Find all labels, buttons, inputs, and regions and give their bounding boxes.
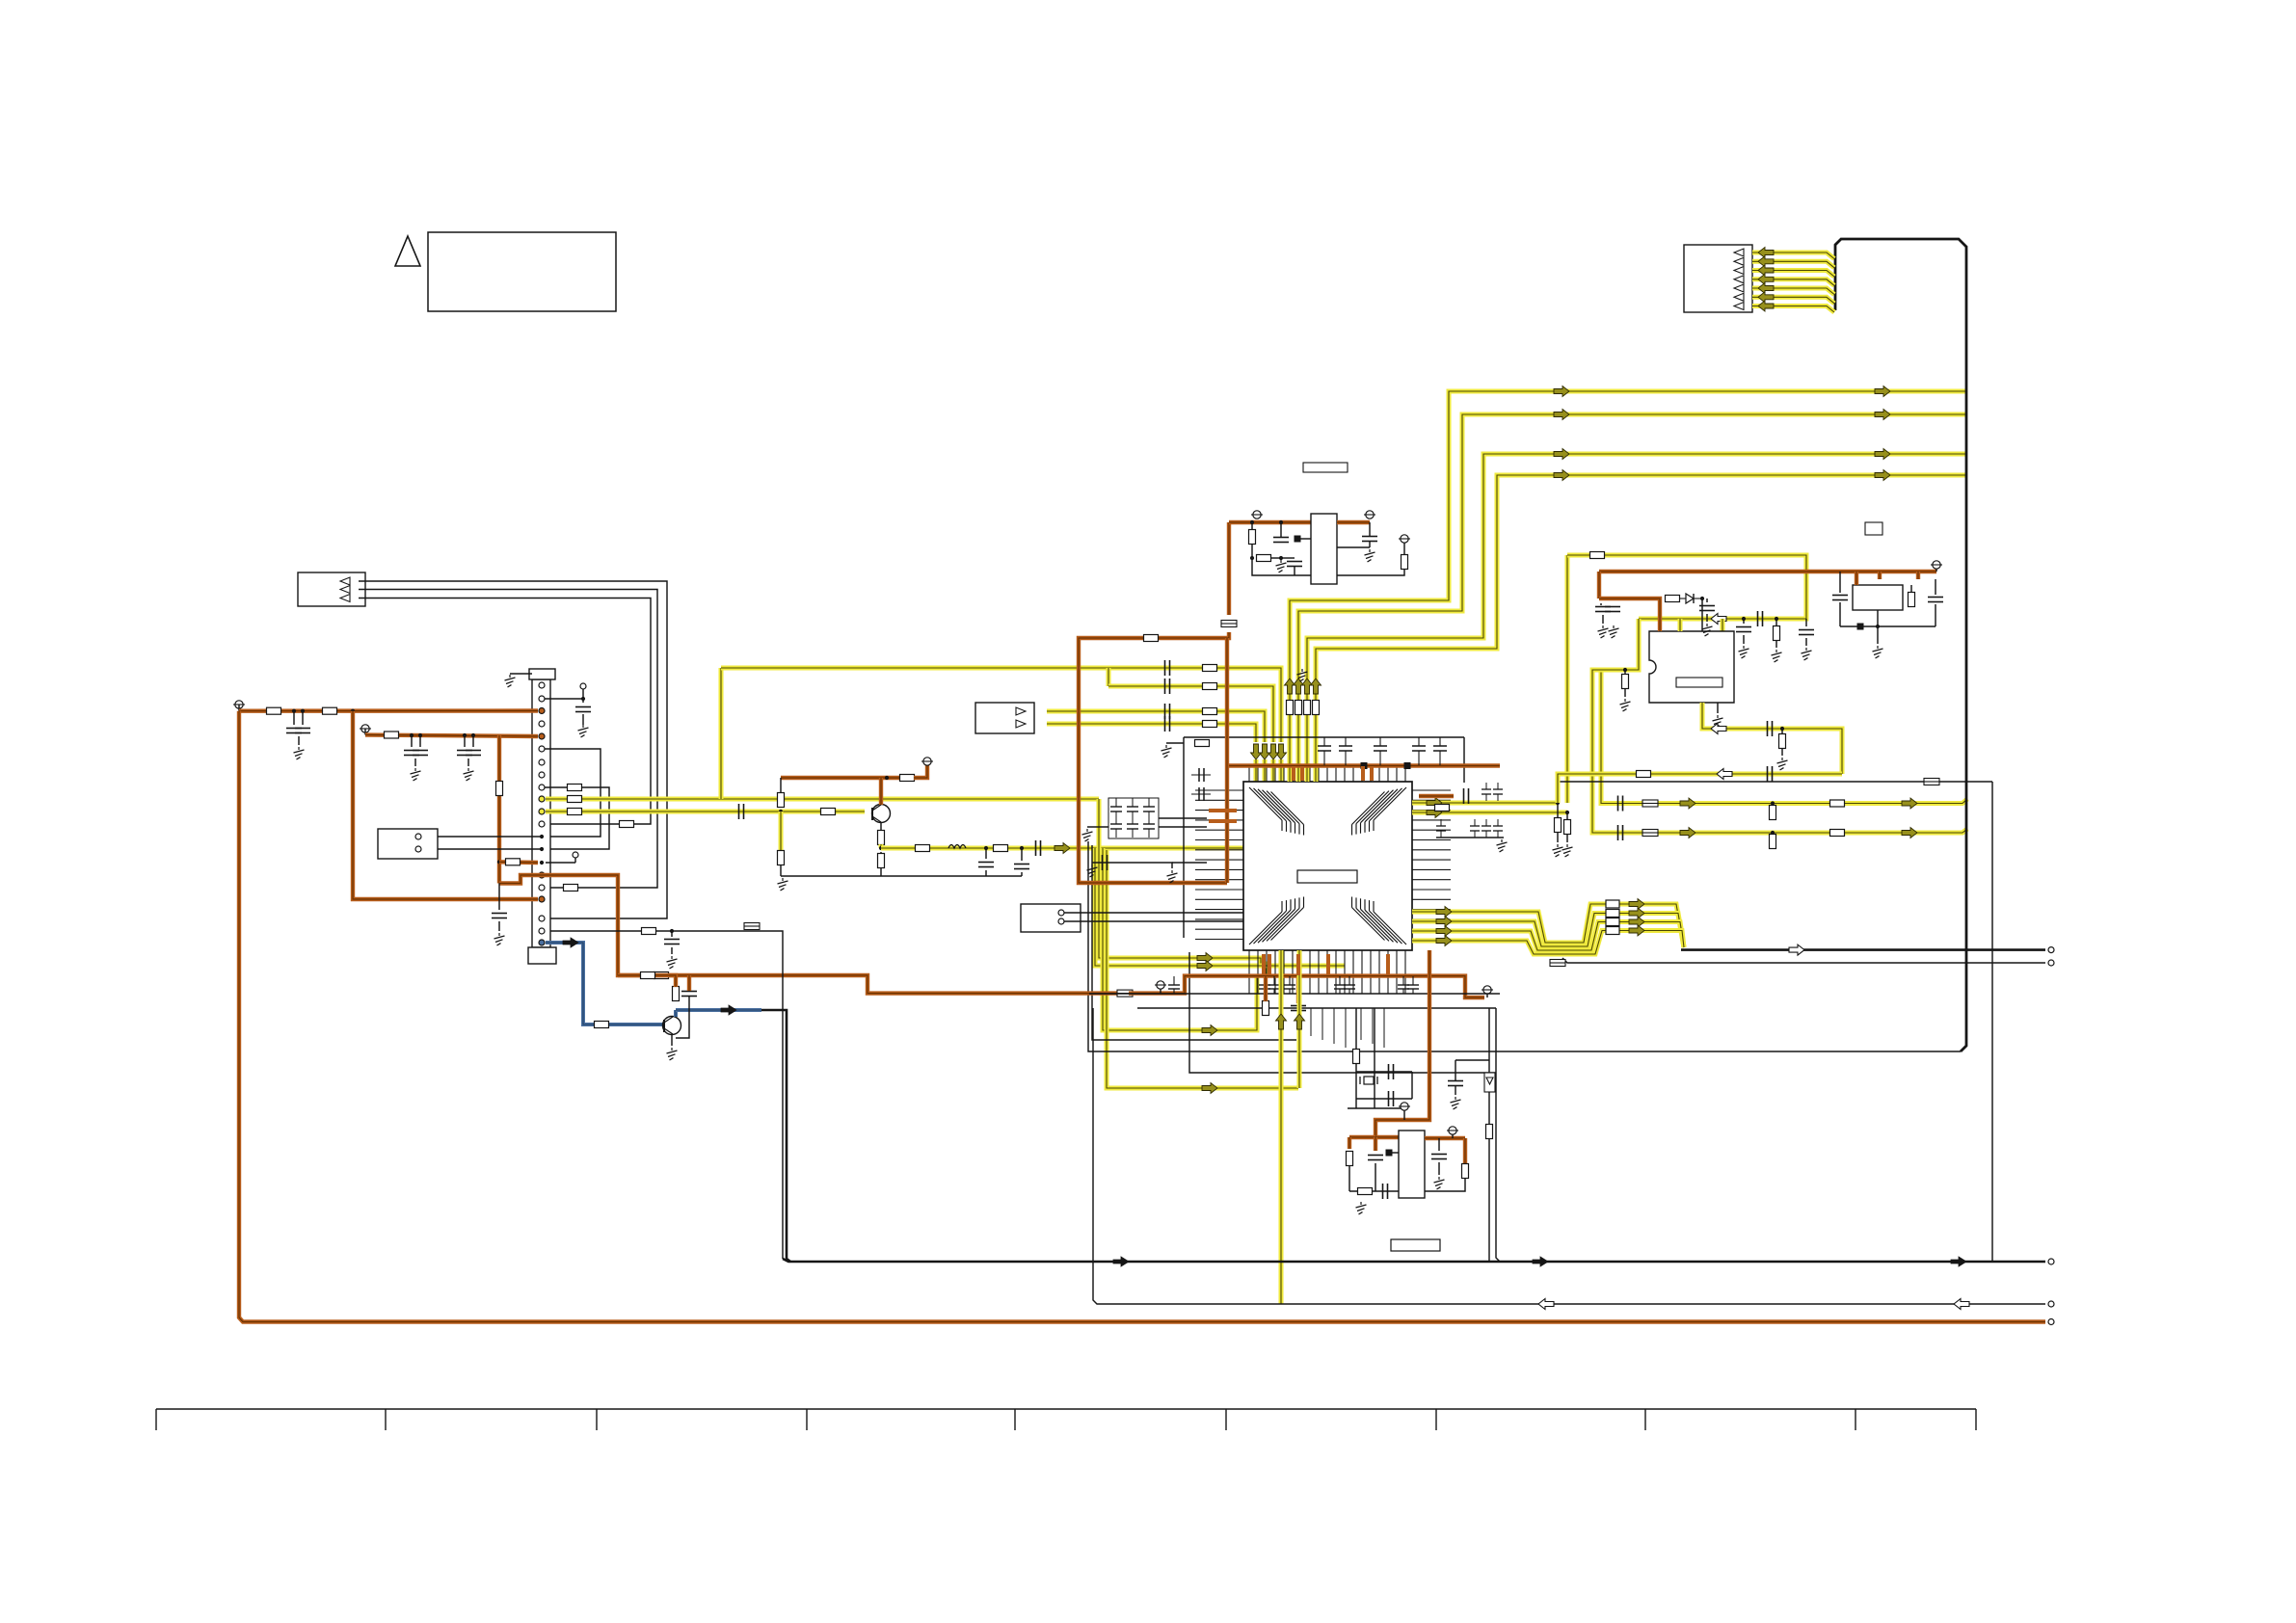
ground U3a xyxy=(1276,560,1287,572)
crystal link a xyxy=(1356,1071,1412,1073)
capacitor C41 xyxy=(1389,1091,1394,1106)
crystal line b xyxy=(1374,1008,1375,1108)
terminal T3 xyxy=(573,852,578,858)
junction J16 xyxy=(1565,811,1569,814)
wire C23 dn xyxy=(1294,567,1295,575)
wire pin6 loop xyxy=(545,749,601,837)
wire C24 up xyxy=(1369,522,1371,536)
open arrow A9 xyxy=(1711,724,1726,734)
brown drop x1659 xyxy=(1597,572,1601,599)
capacitors C20 C21 xyxy=(1191,768,1211,801)
yellow wire Q1 out to IC xyxy=(881,846,1243,851)
wire C36 gnd xyxy=(1602,615,1604,624)
wire C16 dn xyxy=(985,870,987,876)
wire Q2 emitter xyxy=(671,1034,673,1046)
yellow arrow A7a xyxy=(1680,828,1695,838)
ground R47 xyxy=(1777,758,1788,770)
capacitor C12 xyxy=(1165,704,1170,719)
wire R47 dn xyxy=(1781,748,1783,756)
wire R31 dn xyxy=(1251,545,1253,558)
yellow riser b xyxy=(1095,848,1345,966)
wire VT1 stem xyxy=(238,705,240,711)
inductor L1 xyxy=(948,845,966,849)
ground C6 xyxy=(494,933,505,945)
capacitor C54 xyxy=(1291,1006,1306,1011)
junction J15 xyxy=(1556,801,1560,805)
wire caps C3a C3b xyxy=(293,711,295,725)
crystal link b xyxy=(1356,1098,1412,1100)
wire pin9 loop xyxy=(545,787,609,849)
yellow arrow up 1 xyxy=(1285,678,1295,694)
yellow arrow CN3 4 xyxy=(1758,274,1774,284)
junction J22 xyxy=(1876,625,1880,628)
wire R51 stub xyxy=(1264,976,1268,1001)
crystal line a xyxy=(1355,1008,1357,1108)
CL1 out a xyxy=(1159,817,1207,819)
yellow riser e xyxy=(1103,848,1257,1030)
capacitor C38 xyxy=(1928,598,1943,602)
ground C53 xyxy=(1451,1097,1461,1109)
brown decoupling rail xyxy=(1226,763,1500,767)
open arrow A12 xyxy=(1538,1299,1554,1310)
resistor R13 xyxy=(1203,721,1217,728)
wire R70 dn xyxy=(1348,1166,1350,1191)
ground header shield xyxy=(505,675,516,687)
IC U1 top pins xyxy=(1249,766,1405,782)
connector CN2 xyxy=(975,703,1034,733)
blue wire pin21 xyxy=(546,943,664,1024)
connector CN4 xyxy=(1021,904,1081,932)
output terminal O1 xyxy=(2048,947,2054,953)
ground U4 xyxy=(1873,646,1883,658)
wire R49 up xyxy=(1910,585,1912,593)
resistor R50 xyxy=(654,972,669,979)
yellow CN3 wire 6 xyxy=(1752,297,1834,304)
wire C37 dn xyxy=(1839,602,1841,626)
wire R45 dn xyxy=(1775,640,1777,648)
gray riser c xyxy=(1092,845,1296,1040)
EN pin square xyxy=(1295,536,1301,543)
resistor R26 xyxy=(994,845,1008,852)
capacitor C52 xyxy=(1431,1155,1447,1159)
U3 bottom rail xyxy=(1252,558,1311,575)
resistor R62 xyxy=(641,972,655,979)
wire C35 stem xyxy=(1706,599,1708,602)
junction J4b xyxy=(471,733,475,737)
junction J30 xyxy=(1771,801,1775,805)
resistor R4 on branch xyxy=(496,782,503,796)
header pin 16 xyxy=(539,872,545,878)
vertical link x1552 xyxy=(1496,1008,1500,1262)
capacitor C30 xyxy=(1758,611,1763,626)
ground C42b xyxy=(1167,870,1178,883)
fuse F6 xyxy=(1642,800,1658,807)
resistor R21 xyxy=(778,851,785,865)
wire pin15 to T3 xyxy=(546,862,575,864)
yellow out y833 xyxy=(1412,801,1558,806)
brown cap drop xyxy=(1374,1137,1377,1151)
capacitor C61 xyxy=(1618,825,1623,840)
resistor RL1 xyxy=(1144,635,1159,642)
brown reset feed xyxy=(1259,520,1311,524)
wire R27 to rail xyxy=(880,867,882,876)
header pin 14 junction xyxy=(540,847,544,851)
wire C53 link xyxy=(1455,1060,1456,1080)
capacitor C10 xyxy=(1165,660,1170,676)
yellow bus route 4 xyxy=(1316,475,1965,782)
CN3 pin triangle 2 xyxy=(1734,257,1744,265)
power terminal VT6 xyxy=(1399,535,1410,543)
header pin 3 xyxy=(539,708,545,714)
wire C6 gnd xyxy=(498,921,500,931)
wire cap C3b xyxy=(302,711,304,725)
yellow arrow down 2 xyxy=(1268,744,1279,759)
yellow riser a xyxy=(1099,799,1266,976)
fuse F1 xyxy=(1221,621,1237,627)
capacitor cluster CL2 xyxy=(1436,783,1503,838)
junction J11 xyxy=(1250,520,1254,524)
yellow arrow A5 xyxy=(1902,798,1917,809)
IC U2 body xyxy=(1649,631,1734,703)
header pin 2 xyxy=(539,696,545,702)
yellow arrow down 1 xyxy=(1276,744,1287,759)
power terminal VT2 xyxy=(360,725,371,732)
yellow arrow CN3 6 xyxy=(1758,292,1774,303)
resistor R49 xyxy=(1909,593,1915,607)
wire C17 dn xyxy=(1021,872,1023,876)
wire Q2 out black xyxy=(761,1010,790,1262)
ground CL1 xyxy=(1082,829,1093,841)
header pin 11 xyxy=(539,809,545,814)
yellow bus y712 xyxy=(1108,686,1273,742)
resistor R12 xyxy=(620,821,634,828)
wire R47 stem xyxy=(1781,729,1783,734)
resistor R25 xyxy=(916,845,930,852)
X1 pin a xyxy=(415,834,421,839)
wire C54 stub xyxy=(1296,976,1300,1003)
brown rail to header pin3 xyxy=(239,708,538,713)
wire T2 stem xyxy=(582,689,584,703)
resistor R24 xyxy=(878,831,885,845)
decoupling capacitors bottom row xyxy=(1168,976,1419,994)
U5 bottom rail xyxy=(1349,1190,1399,1192)
wire R72 dn xyxy=(1425,1179,1465,1191)
pin header P1 top cap xyxy=(529,669,555,679)
link y811 xyxy=(1559,777,1992,782)
yellow arrow mid 4 xyxy=(1554,470,1569,481)
wire U3 gnd right xyxy=(1337,546,1370,548)
IC U1 right pins xyxy=(1412,790,1451,940)
yellow vertical right xyxy=(1297,950,1302,1088)
wire C31 stem xyxy=(1743,619,1745,624)
brown under-IC rail2 xyxy=(1129,976,1484,998)
ground rail under Q1 xyxy=(781,875,1022,877)
output terminal O4 xyxy=(2048,1301,2054,1307)
wire J13 right xyxy=(1281,557,1295,559)
brown U5 right drop xyxy=(1463,1138,1467,1163)
resistor R2 xyxy=(323,707,337,714)
capacitor C13 xyxy=(1165,716,1170,732)
resistor R40 xyxy=(1770,806,1776,820)
yellow arrow up 4 xyxy=(1311,678,1322,694)
yellow arrow data 1 xyxy=(1436,907,1452,918)
junction J14 xyxy=(1279,520,1283,524)
cap C42 link3 xyxy=(1172,862,1207,864)
connector CN1 xyxy=(298,572,365,606)
wire R32 to J13 xyxy=(1270,557,1281,559)
black arrow B2 xyxy=(721,1005,736,1015)
pin arrow 1 xyxy=(340,577,350,585)
header pin 4 xyxy=(539,721,545,727)
resistor RB3 xyxy=(1304,701,1311,715)
yellow CN3 wire 1 xyxy=(1752,253,1834,259)
yellow emitter out xyxy=(879,844,884,848)
wire VT8 stem xyxy=(1160,989,1161,994)
brown left drop xyxy=(1348,1137,1351,1149)
brown U2 pin feed xyxy=(1599,599,1660,631)
IC U1 bottom pins xyxy=(1249,950,1405,994)
yellow vertical left xyxy=(1279,950,1284,1304)
component X1 box xyxy=(378,829,438,859)
wire VT2 stem xyxy=(364,729,366,735)
resistor R30 xyxy=(1195,740,1210,747)
regulator U4 body xyxy=(1853,585,1903,610)
power terminal VT9 xyxy=(1482,986,1493,994)
junction J13 xyxy=(1279,556,1283,560)
ground R30 xyxy=(1161,745,1172,758)
ground bus xyxy=(1297,669,1308,681)
wire C5b xyxy=(472,735,474,747)
header pin 19 xyxy=(539,916,545,921)
resistor R53 xyxy=(1435,805,1450,811)
box outline under IC xyxy=(1189,952,1496,1073)
warning triangle xyxy=(395,236,420,266)
junction J10 xyxy=(1020,846,1024,850)
resistor RB4 xyxy=(1313,701,1320,715)
wire C38 up xyxy=(1935,579,1936,595)
ground C5 xyxy=(464,768,474,781)
yellow arrow A1 xyxy=(1055,843,1070,854)
crystal X2 xyxy=(1360,1077,1377,1084)
resistor R54 xyxy=(1637,771,1651,778)
gray riser d xyxy=(1088,841,1961,1051)
IC U1 pin fan top-right xyxy=(1352,787,1407,836)
junction J3b xyxy=(418,733,422,737)
decoupling rail left xyxy=(1183,737,1185,938)
yellow riser to y693 xyxy=(719,668,724,799)
capacitor C14 xyxy=(739,804,744,819)
wire C22 up xyxy=(1280,522,1282,537)
capacitor C34 xyxy=(1768,766,1773,782)
yellow arrow mid 2 xyxy=(1554,410,1569,420)
capacitor C36a xyxy=(1595,607,1611,612)
capacitor C32 xyxy=(1799,630,1814,635)
fuse F2 xyxy=(1924,779,1939,785)
capacitor C33 xyxy=(1768,721,1773,736)
capacitor C4b xyxy=(413,751,428,756)
yellow top route xyxy=(1567,555,1806,619)
power terminal VT5 xyxy=(1364,511,1375,519)
U4 bottom rail xyxy=(1840,625,1936,627)
resistor R31 xyxy=(1249,530,1256,545)
brown to VT3 xyxy=(914,765,927,778)
yellow wire pin10 bus xyxy=(546,797,1099,802)
output terminal O2 xyxy=(2048,960,2054,966)
wire R42 stem xyxy=(1557,803,1559,818)
yellow arrow data2 2 xyxy=(1629,908,1644,918)
capacitor C50 xyxy=(1368,1156,1383,1160)
fuse F3 xyxy=(1550,960,1565,967)
brown loop lower xyxy=(1079,632,1229,883)
resistor R70 xyxy=(1347,1152,1353,1166)
fuse F4 xyxy=(1117,990,1133,997)
wire C3 gnd xyxy=(298,736,300,745)
resistor R33 xyxy=(1402,555,1408,570)
wire R46 stem xyxy=(1624,670,1626,675)
diode D1 xyxy=(1679,594,1702,603)
yellow arrow end 4 xyxy=(1875,470,1890,481)
wire VT11 stem xyxy=(1452,1134,1454,1138)
U4 gnd stem xyxy=(1877,610,1879,644)
junction J21 xyxy=(1700,597,1704,600)
resistor R72 xyxy=(1462,1164,1469,1179)
ground C3 xyxy=(294,747,305,759)
resistor R1 xyxy=(267,707,281,714)
note box xyxy=(428,232,616,311)
wire C17 hang xyxy=(1021,848,1023,861)
yellow data line 2 xyxy=(1412,914,1684,948)
IC U1 label xyxy=(1297,870,1357,883)
resistor RB1 xyxy=(1287,701,1294,715)
thick output line xyxy=(783,1259,2045,1262)
resistor R27 xyxy=(878,854,885,868)
wire Q1 emitter xyxy=(880,822,882,831)
black merged data line xyxy=(1681,948,2045,951)
wire C46 stem xyxy=(671,931,673,937)
output terminal O3 xyxy=(2048,1259,2054,1264)
resistor R22 xyxy=(778,793,785,808)
yellow link y802 xyxy=(1558,774,1842,803)
yellow bus y737 xyxy=(1047,711,1265,742)
resistor R10a xyxy=(568,796,582,803)
wire C45 dn xyxy=(676,997,689,1038)
resistor R40b xyxy=(1830,800,1845,807)
resistor R11a xyxy=(568,809,582,815)
junction J12 xyxy=(1250,556,1254,560)
header pin 17 xyxy=(539,885,545,891)
wire C37 up xyxy=(1839,572,1841,593)
diode D2 xyxy=(1484,1073,1495,1092)
capacitor C60 xyxy=(1618,796,1623,811)
ground U5a xyxy=(1356,1202,1367,1214)
wire VT7 stem xyxy=(1936,569,1937,572)
wire C52 dn xyxy=(1438,1162,1440,1175)
resistor R32 xyxy=(1257,555,1271,562)
fuse F7 xyxy=(1642,830,1658,837)
yellow drop junction xyxy=(1107,668,1111,686)
ground U3b xyxy=(1365,549,1375,562)
ground Q2 xyxy=(667,1048,678,1060)
power terminal VT4 xyxy=(1251,511,1263,519)
junction J18 xyxy=(1775,617,1778,621)
capacitor C6 xyxy=(492,914,507,918)
junction J17 xyxy=(1742,617,1746,621)
yellow data line 3 xyxy=(1412,922,1684,951)
yellow riser x1626 xyxy=(1565,555,1570,803)
cap C42 link xyxy=(1092,862,1147,864)
yellow arrow data 4 xyxy=(1436,936,1452,946)
wire C32 dn xyxy=(1805,638,1807,646)
wire R31 stem xyxy=(1251,522,1253,529)
yellow arrow data 2 xyxy=(1436,917,1452,927)
yellow arrow up B xyxy=(1295,1014,1305,1029)
IC bottom stub wires xyxy=(1311,1008,1384,1048)
yellow arrow data 3 xyxy=(1436,926,1452,937)
capacitor C5b xyxy=(466,751,481,756)
capacitor C15 xyxy=(1036,840,1041,856)
connector CN3 xyxy=(1684,245,1752,312)
resistor R52 xyxy=(1353,1050,1360,1064)
capacitor C16 xyxy=(978,863,994,867)
yellow arrow A2 xyxy=(1197,953,1213,964)
yellow CN3 wire 4 xyxy=(1752,279,1834,286)
yellow arrow end 3 xyxy=(1875,449,1890,460)
wire C5a xyxy=(464,735,466,747)
yellow arrow A5a xyxy=(1680,798,1695,809)
black arrow B3 xyxy=(1113,1257,1129,1266)
U2 bottom yellow xyxy=(1702,703,1842,774)
power terminal VT1 xyxy=(233,701,245,708)
ruler scale xyxy=(156,1409,1976,1430)
label box LB1 xyxy=(1391,1239,1440,1251)
wire R22 top xyxy=(780,778,782,792)
wire R43 stem xyxy=(1566,812,1568,820)
capacitor C23 xyxy=(1287,562,1302,567)
yellow arrow up 2 xyxy=(1294,678,1304,694)
CN3 pin triangle 3 xyxy=(1734,267,1744,275)
wire pin2 to C2 xyxy=(545,698,583,700)
yellow arrow down 4 xyxy=(1251,744,1262,759)
IC U1 left pins xyxy=(1195,790,1243,940)
capacitor C3a xyxy=(286,729,302,733)
capacitor cluster CL1 xyxy=(1108,798,1159,838)
junction J2 xyxy=(351,709,355,713)
resistor R45 xyxy=(1774,626,1780,641)
wire Q1 collector xyxy=(879,778,883,805)
yellow arrow data2 1 xyxy=(1629,899,1644,910)
IC U1 pin fan bottom-left xyxy=(1249,897,1304,945)
resistor R17 xyxy=(564,885,578,891)
wire CN1-1 to header pin19 xyxy=(359,581,667,918)
header pin 8 xyxy=(539,772,545,778)
transistor Q1 xyxy=(872,805,891,823)
power terminal VT3 xyxy=(921,758,933,765)
wire R45 stem xyxy=(1775,619,1777,626)
capacitor C31 xyxy=(1736,627,1751,632)
wire D2 dn xyxy=(1488,1092,1490,1124)
ground U2 xyxy=(1713,715,1723,728)
brown long return xyxy=(239,711,2045,1322)
resistor R60 xyxy=(595,1022,609,1028)
junction pin2 xyxy=(581,697,585,701)
power terminal VT7 xyxy=(1931,561,1942,569)
regulator U5 body xyxy=(1399,1131,1425,1198)
resistor R47 xyxy=(1779,734,1786,749)
resistor R61 xyxy=(673,987,680,1001)
ferrite bead FB1 xyxy=(1361,762,1368,769)
resistor R10 xyxy=(1203,665,1217,672)
resistor R73 xyxy=(1486,1125,1493,1139)
